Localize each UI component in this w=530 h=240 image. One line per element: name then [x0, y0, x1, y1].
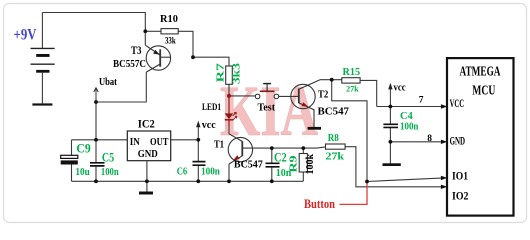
- svg-text:IC2: IC2: [138, 117, 155, 131]
- wire T1 base rail to R8: [242, 147, 325, 148]
- battery BT1 +9V: [31, 48, 55, 72]
- wire C4 bottom lead to pin8 node: [389, 128, 391, 142]
- node pin8 C4: [389, 140, 393, 144]
- svg-text:IO1: IO1: [452, 171, 468, 183]
- svg-text:Test: Test: [258, 102, 276, 113]
- svg-text:33k: 33k: [165, 35, 176, 45]
- svg-text:R15: R15: [343, 67, 361, 78]
- svg-text:R8: R8: [328, 132, 340, 144]
- svg-text:+9V: +9V: [14, 26, 37, 43]
- node rail C6 bottom: [196, 179, 200, 183]
- svg-text:8: 8: [427, 134, 432, 144]
- node Ubat arrow: [94, 77, 118, 102]
- wire IC2 OUT to vcc node: [171, 139, 199, 141]
- svg-text:R10: R10: [160, 14, 178, 25]
- capacitor C6: [177, 162, 220, 178]
- pin arrow IO2: [441, 185, 447, 189]
- node rail T1 emitter: [227, 179, 231, 183]
- svg-text:IO2: IO2: [452, 191, 469, 203]
- svg-text:T1: T1: [214, 140, 224, 151]
- wire battery positive lead: [41, 13, 43, 49]
- svg-text:vcc: vcc: [394, 82, 407, 93]
- svg-text:100n: 100n: [101, 167, 119, 178]
- pin arrow GND: [441, 140, 447, 144]
- wire C9 top lead: [71, 140, 73, 156]
- wire R15 right lead to vcc pin7 node: [360, 80, 377, 106]
- svg-text:ATMEGA: ATMEGA: [460, 64, 501, 79]
- svg-text:OUT: OUT: [150, 137, 169, 148]
- ground bar T2: [308, 127, 321, 130]
- transistor T3 BC557C: [113, 45, 171, 72]
- svg-text:IN: IN: [130, 137, 141, 148]
- LED1: [202, 94, 237, 126]
- node T2 collector: [330, 78, 334, 82]
- resistor R15: [342, 67, 360, 93]
- wire ground bottom rail: [72, 180, 304, 182]
- wire C9 bottom lead: [71, 165, 73, 182]
- wire IO1 to MCU: [367, 178, 441, 181]
- wire R7 bottom lead: [228, 84, 230, 94]
- wire Ubat node down to input rail: [95, 102, 97, 140]
- pin arrow VCC: [441, 104, 447, 108]
- svg-text:C6: C6: [177, 166, 188, 177]
- wire C5 leads: [95, 140, 97, 182]
- wire Test switch right contact to T2 base: [279, 95, 299, 97]
- wire T2 collector node to R15: [320, 79, 342, 81]
- ground bar IC2: [139, 192, 153, 195]
- wire IC2 GND lead to ground: [146, 161, 148, 192]
- capacitor C4: [383, 111, 418, 132]
- MCU ATMEGA box: [447, 58, 514, 216]
- svg-text:C2: C2: [274, 150, 287, 164]
- wire T2 collector branch down to IO1: [332, 80, 367, 182]
- node Ubat junction: [94, 100, 98, 104]
- node vcc pin7: [389, 105, 393, 109]
- svg-text:BC547: BC547: [318, 105, 350, 117]
- wire C4 top lead: [389, 107, 391, 124]
- svg-text:C5: C5: [102, 151, 114, 165]
- svg-text:10u: 10u: [75, 167, 90, 178]
- pin arrow IO1: [441, 176, 447, 180]
- wire T3 base node to R7 top: [193, 57, 229, 66]
- svg-text:MCU: MCU: [472, 83, 495, 98]
- wire C6 leads: [197, 140, 199, 182]
- svg-text:27k: 27k: [326, 152, 345, 163]
- svg-text:R9: R9: [287, 155, 299, 173]
- svg-text:100k: 100k: [305, 154, 316, 175]
- wire R9 leads: [302, 148, 304, 181]
- svg-text:27k: 27k: [346, 85, 359, 94]
- wire T1 emitter lead: [228, 164, 230, 181]
- transistor T1 BC547: [214, 134, 263, 171]
- svg-text:C9: C9: [76, 141, 90, 155]
- wire T3 collector to Ubat node: [96, 72, 146, 102]
- svg-text:T2: T2: [318, 89, 328, 100]
- svg-text:BC557C: BC557C: [113, 59, 146, 70]
- svg-text:BC547: BC547: [234, 159, 263, 171]
- node rail C5 bottom: [94, 179, 98, 183]
- svg-text:GND: GND: [138, 149, 158, 160]
- wire top rail from battery to R10 branch: [42, 13, 145, 46]
- wire pin7 to MCU VCC: [377, 106, 441, 108]
- node T3 base junction: [191, 55, 195, 59]
- vcc arrow at pin7 node: [388, 82, 406, 106]
- svg-text:Ubat: Ubat: [99, 77, 118, 88]
- ground bar C4: [383, 163, 401, 166]
- capacitor C2: [266, 150, 292, 179]
- resistor R9: [287, 154, 316, 175]
- resistor R8: [326, 132, 346, 163]
- wire battery negative lead: [41, 73, 43, 104]
- capacitor C9 polarized: [61, 141, 91, 178]
- wire C2 leads: [271, 148, 273, 181]
- capacitor C5: [90, 151, 119, 179]
- node T1 base C2: [270, 146, 274, 150]
- svg-text:vcc: vcc: [202, 120, 216, 131]
- wire pin8 to MCU GND: [390, 141, 441, 143]
- resistor R10: [160, 14, 178, 46]
- node rail IC2 gnd: [145, 179, 149, 183]
- node R10 left junction: [143, 29, 147, 33]
- svg-text:7: 7: [419, 96, 424, 106]
- pushbutton Test: [255, 84, 278, 114]
- wire LED node to Test switch left contact: [231, 95, 255, 97]
- svg-text:3k3: 3k3: [232, 63, 243, 84]
- node vcc C6 top: [196, 138, 200, 142]
- node T1 base R9: [301, 146, 305, 150]
- wire input rail C9 to IC2 IN: [72, 139, 128, 141]
- svg-text:R7: R7: [215, 62, 227, 82]
- wire pin8 node down to ground: [389, 142, 391, 164]
- svg-text:Button: Button: [304, 196, 336, 211]
- vcc arrow at IC2 output: [196, 120, 216, 140]
- svg-text:VCC: VCC: [450, 98, 465, 110]
- wire R10 right lead down to T3 base node: [178, 31, 193, 57]
- node rail C2 bottom: [270, 179, 274, 183]
- svg-text:T3: T3: [131, 45, 142, 57]
- wire R8 right lead down to IO2: [345, 147, 441, 187]
- node input rail C5 top: [94, 138, 98, 142]
- regulator IC2: [127, 117, 170, 161]
- resistor R7: [215, 62, 243, 84]
- svg-text:100n: 100n: [201, 166, 220, 177]
- wire T1 collector lead: [228, 126, 230, 134]
- wire R10 left lead: [145, 30, 161, 32]
- svg-text:LED1: LED1: [202, 103, 221, 113]
- svg-text:GND: GND: [450, 135, 466, 147]
- svg-text:100n: 100n: [400, 121, 419, 132]
- transistor T2 BC547: [291, 80, 350, 127]
- node IO1 button: [365, 180, 369, 184]
- node Button red pointer: [304, 183, 367, 211]
- ground bar battery: [32, 103, 52, 105]
